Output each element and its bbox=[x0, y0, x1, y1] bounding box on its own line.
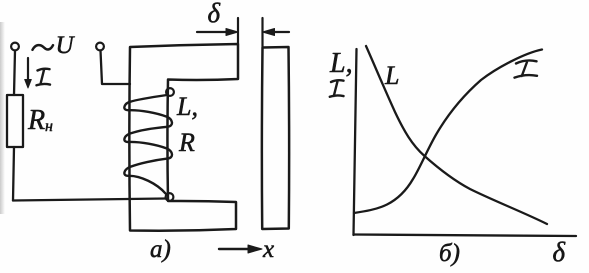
svg-text:н: н bbox=[45, 118, 53, 135]
graph x-axis bbox=[354, 235, 577, 237]
svg-text:L,: L, bbox=[176, 92, 198, 121]
label I bbox=[37, 69, 51, 86]
coil winding L,R bbox=[124, 95, 172, 194]
gap dimension arrow left bbox=[197, 31, 233, 33]
curve L (descending) bbox=[366, 46, 547, 224]
svg-text:x: x bbox=[262, 236, 274, 263]
graph y-axis bbox=[354, 49, 357, 235]
svg-text:а): а) bbox=[150, 236, 171, 263]
svg-text:δ: δ bbox=[208, 0, 221, 28]
armature plate bbox=[262, 47, 289, 229]
curve I (ascending) bbox=[354, 50, 542, 214]
gap dimension arrow right bbox=[268, 31, 289, 33]
wire resistor to bottom bbox=[13, 147, 14, 201]
terminal T1 bbox=[11, 43, 19, 51]
current arrow I bbox=[27, 58, 29, 83]
coil top terminal bbox=[166, 88, 174, 96]
svg-text:L,: L, bbox=[329, 48, 353, 79]
wire bottom horizontal bbox=[13, 199, 166, 201]
resistor RH bbox=[7, 95, 23, 147]
svg-text:U: U bbox=[56, 32, 76, 59]
svg-text:δ: δ bbox=[553, 237, 566, 267]
label I (curve) bbox=[515, 60, 538, 77]
svg-text:R: R bbox=[27, 105, 45, 136]
wire T1 to resistor bbox=[14, 51, 15, 96]
svg-text:L: L bbox=[384, 61, 399, 90]
wire T2 to coil bbox=[101, 51, 131, 85]
x arrow bbox=[219, 248, 252, 250]
svg-text:R: R bbox=[178, 128, 195, 157]
gap extension line right bbox=[261, 18, 263, 47]
svg-text:б): б) bbox=[439, 240, 460, 267]
gap extension line left bbox=[237, 18, 239, 44]
label ~U bbox=[33, 45, 54, 50]
core (C-shaped magnetic core) bbox=[129, 44, 238, 231]
terminal T2 bbox=[96, 43, 104, 51]
coil bottom terminal bbox=[166, 193, 174, 201]
